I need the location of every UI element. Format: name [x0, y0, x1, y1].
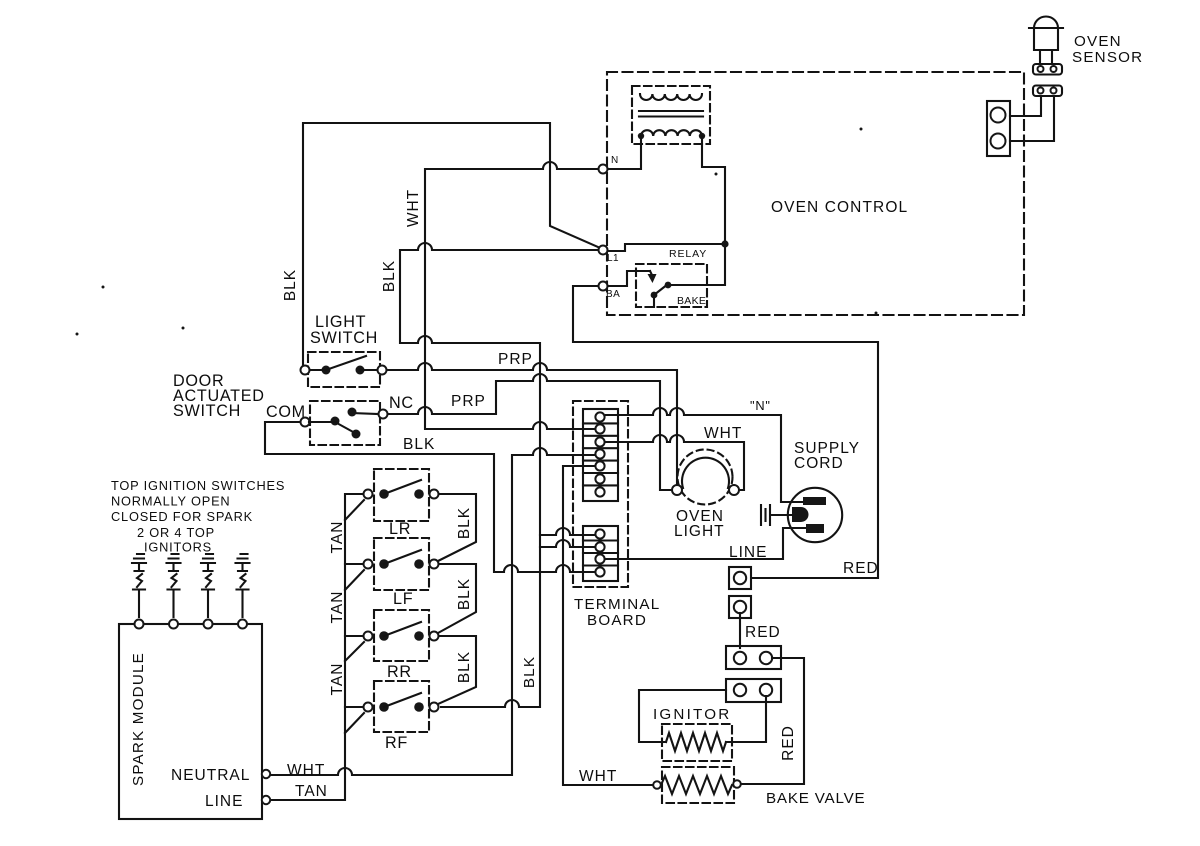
- bake valve right terminal: [733, 780, 741, 788]
- svg-text:TAN: TAN: [329, 591, 346, 624]
- light switch dashed box: [308, 352, 380, 387]
- scan speck: [102, 286, 105, 289]
- connector C2 square: [729, 596, 751, 618]
- wire block B2 left to ignitor: [639, 690, 726, 742]
- svg-text:RED: RED: [843, 560, 879, 577]
- wire BLK from door switch COM to terminal board lower block: [265, 422, 594, 572]
- wire oven sensor to control block lower: [1010, 96, 1054, 141]
- oven light dashed bulb circle: [678, 450, 733, 505]
- light switch right terminal: [378, 366, 387, 375]
- svg-text:LR: LR: [389, 520, 411, 538]
- oven sensor bulb: [1029, 17, 1063, 65]
- wire PRP from light switch to oven light: [386, 363, 677, 484]
- svg-text:NEUTRAL: NEUTRAL: [171, 767, 250, 784]
- svg-text:LIGHT: LIGHT: [674, 523, 725, 540]
- wire terminal board to bottom box circle 1: [540, 528, 595, 535]
- svg-text:WHT: WHT: [579, 768, 617, 785]
- supply cord neutral prong: [803, 497, 826, 505]
- svg-text:RR: RR: [387, 663, 412, 681]
- bake valve dashed box: [662, 767, 734, 803]
- svg-text:PRP: PRP: [498, 351, 533, 368]
- relay K1 dashed box: [636, 264, 707, 307]
- svg-text:BA: BA: [606, 289, 620, 300]
- wire TAN diagonal LF: [345, 570, 364, 590]
- svg-text:BLK: BLK: [282, 269, 299, 301]
- supply cord strain relief ticks: [761, 505, 792, 525]
- relay switch contact dot: [665, 282, 672, 289]
- svg-text:SPARK MODULE: SPARK MODULE: [130, 652, 147, 786]
- ignitor resistor element: [666, 733, 726, 751]
- wire TAN stub RR: [345, 635, 364, 637]
- wire TAN bus left side of ignition switches to spark module line: [271, 494, 364, 800]
- light switch arm: [310, 356, 377, 370]
- svg-text:CLOSED FOR SPARK: CLOSED FOR SPARK: [111, 509, 253, 524]
- svg-text:PRP: PRP: [451, 393, 486, 410]
- spark ignitor electrode symbol 4: [236, 554, 250, 617]
- oven light left terminal: [672, 485, 682, 495]
- wire transformer right lead down to relay junction: [671, 136, 725, 285]
- door actuated switch dashed box: [310, 401, 380, 445]
- bake valve resistor element: [661, 776, 732, 794]
- svg-text:SWITCH: SWITCH: [310, 329, 378, 347]
- svg-text:IGNITOR: IGNITOR: [653, 706, 731, 723]
- ignition switch RF dashed box: [374, 681, 429, 732]
- svg-text:BOARD: BOARD: [587, 612, 647, 629]
- terminal board upper circles 1-7: [595, 412, 604, 421]
- svg-text:RED: RED: [745, 624, 781, 641]
- svg-text:WHT: WHT: [287, 762, 325, 779]
- svg-text:OVEN: OVEN: [1074, 33, 1122, 50]
- connector block B2: [726, 679, 781, 702]
- svg-text:RED: RED: [780, 725, 797, 761]
- svg-text:SENSOR: SENSOR: [1072, 49, 1143, 66]
- transformer T1 primary winding: [640, 94, 702, 100]
- wire transformer left lead to N: [608, 136, 641, 169]
- supply cord plug circle: [788, 488, 842, 542]
- transformer T1 core: [639, 111, 703, 117]
- wire terminal board to bottom box circle 2: [540, 540, 595, 547]
- supply cord line prong: [806, 524, 824, 533]
- svg-text:OVEN CONTROL: OVEN CONTROL: [771, 199, 908, 216]
- svg-text:L1: L1: [607, 253, 619, 264]
- svg-text:BLK: BLK: [403, 436, 435, 453]
- transformer T1 secondary winding: [641, 130, 702, 136]
- supply cord ground prong: [792, 507, 809, 522]
- svg-text:LINE: LINE: [205, 793, 243, 810]
- bake valve left terminal: [653, 781, 661, 789]
- svg-text:TAN: TAN: [329, 663, 346, 696]
- terminal board dashed outline: [573, 401, 628, 587]
- connector block B1: [726, 646, 781, 669]
- wire RED connector C2 to block B1: [739, 613, 741, 648]
- wire TAN diagonal LR: [345, 500, 364, 520]
- spark ignitor electrode symbol 1: [132, 554, 146, 617]
- terminal BA circle: [599, 282, 608, 291]
- svg-text:LF: LF: [393, 590, 413, 608]
- svg-text:"N": "N": [750, 398, 771, 413]
- wire PRP from door switch NC to oven light: [387, 374, 671, 490]
- spark module box: [119, 624, 262, 819]
- svg-text:BLK: BLK: [521, 656, 538, 688]
- svg-text:COM: COM: [266, 403, 306, 421]
- door switch COM terminal: [301, 418, 310, 427]
- wire RED block B1 to bake valve right: [741, 658, 804, 784]
- spark ignitor electrode symbol 2: [167, 554, 181, 617]
- relay actuator arrow: [650, 271, 652, 275]
- svg-text:BLK: BLK: [456, 507, 473, 539]
- relay switch pivot dot: [651, 292, 658, 299]
- junction dot transformer secondary right: [699, 133, 705, 139]
- wire WHT from terminal board to oven light right terminal: [606, 435, 744, 490]
- svg-text:N: N: [611, 155, 619, 166]
- oven light filament arc: [682, 458, 729, 488]
- svg-text:BLK: BLK: [456, 578, 473, 610]
- wire TAN diagonal RR: [345, 642, 364, 661]
- door switch lower contact dot: [352, 430, 361, 439]
- spark module neutral terminal: [262, 770, 270, 778]
- svg-text:SWITCH: SWITCH: [173, 402, 241, 420]
- switch LF terminals and contacts: [364, 560, 373, 569]
- svg-text:TAN: TAN: [295, 783, 328, 800]
- terminal board upper block: [583, 409, 618, 501]
- ignition switch LF dashed box: [374, 538, 429, 590]
- wire oven sensor to control block upper: [1010, 96, 1041, 116]
- door switch NC terminal: [379, 410, 388, 419]
- relay switch arm: [654, 284, 668, 307]
- svg-text:RF: RF: [385, 734, 408, 752]
- svg-text:TOP IGNITION SWITCHES: TOP IGNITION SWITCHES: [111, 478, 285, 493]
- oven light right terminal: [729, 485, 739, 495]
- scan speck: [860, 128, 863, 131]
- svg-text:TAN: TAN: [329, 521, 346, 554]
- svg-text:BLK: BLK: [456, 651, 473, 683]
- spark ignitor electrode symbol 3: [201, 554, 215, 617]
- svg-text:WHT: WHT: [405, 189, 422, 227]
- svg-text:NC: NC: [389, 394, 414, 412]
- wire TAN stub RF: [345, 706, 364, 708]
- wire L1 to relay junction: [608, 244, 725, 251]
- ignitor dashed box: [662, 724, 732, 761]
- wire TAN stub LF: [345, 563, 364, 565]
- ignition switch LR dashed box: [374, 469, 429, 521]
- junction dot node at relay feed: [721, 240, 728, 247]
- wire WHT from terminal board circle 5 down to bake valve: [563, 466, 653, 785]
- switch RF terminals and contacts: [364, 703, 373, 712]
- svg-text:2 OR 4 TOP: 2 OR 4 TOP: [137, 525, 215, 540]
- wire TAN diagonal RF: [345, 713, 364, 733]
- spark module line terminal: [262, 796, 270, 804]
- svg-text:CORD: CORD: [794, 455, 844, 472]
- wire RED from relay BA terminal down right side to connector: [573, 286, 878, 578]
- oven control dashed enclosure box: [607, 72, 1024, 315]
- oven sensor connector lower: [1033, 86, 1062, 97]
- oven sensor connector upper: [1033, 64, 1062, 75]
- terminal L1 circle: [599, 246, 608, 255]
- connector C1 square: [729, 567, 751, 589]
- terminal board lower block: [583, 526, 618, 581]
- oven control sensor block: [987, 101, 1010, 156]
- ignition switch RR dashed box: [374, 610, 429, 661]
- wire BLK from L1 down to top ignition switches (main hot bus): [400, 243, 599, 707]
- spark module top terminals: [135, 620, 144, 629]
- wire BLK bus right side of ignition switches: [438, 494, 476, 704]
- light switch left terminal: [301, 366, 310, 375]
- door switch NC contact dot: [348, 408, 357, 417]
- svg-text:WHT: WHT: [704, 425, 742, 442]
- scan speck: [182, 327, 185, 330]
- wire WHT from spark module neutral up to terminal board: [270, 448, 594, 775]
- switch LR terminals and contacts: [364, 490, 373, 499]
- wire N supply from terminal board to supply cord: [606, 408, 802, 502]
- junction dot transformer secondary left: [638, 133, 644, 139]
- svg-text:LINE: LINE: [729, 544, 767, 561]
- terminal board lower circles 1-4: [595, 529, 604, 538]
- wire BLK branch top loop to light switch: [303, 123, 598, 366]
- svg-text:RELAY: RELAY: [669, 248, 707, 260]
- svg-text:TERMINAL: TERMINAL: [574, 596, 660, 613]
- svg-text:BAKE VALVE: BAKE VALVE: [766, 790, 865, 807]
- svg-text:IGNITORS: IGNITORS: [144, 540, 212, 555]
- light switch contact dots: [322, 366, 331, 375]
- door switch pivot dot: [331, 417, 340, 426]
- scan speck: [76, 333, 79, 336]
- svg-text:NORMALLY OPEN: NORMALLY OPEN: [111, 494, 230, 509]
- terminal N circle: [599, 165, 608, 174]
- wire BA to relay coil arrow: [608, 271, 650, 286]
- scan speck: [875, 312, 878, 315]
- wire LINE from terminal board to supply cord: [606, 528, 806, 559]
- wire WHT from N terminal down and right to terminal board: [425, 162, 599, 429]
- wire block B2 right to ignitor: [726, 696, 766, 742]
- svg-text:BAKE: BAKE: [677, 295, 706, 307]
- svg-text:BLK: BLK: [381, 260, 398, 292]
- door switch arm to lower contact: [309, 413, 378, 433]
- scan speck: [715, 173, 718, 176]
- switch RR terminals and contacts: [364, 632, 373, 641]
- transformer T1 dashed box: [632, 86, 710, 144]
